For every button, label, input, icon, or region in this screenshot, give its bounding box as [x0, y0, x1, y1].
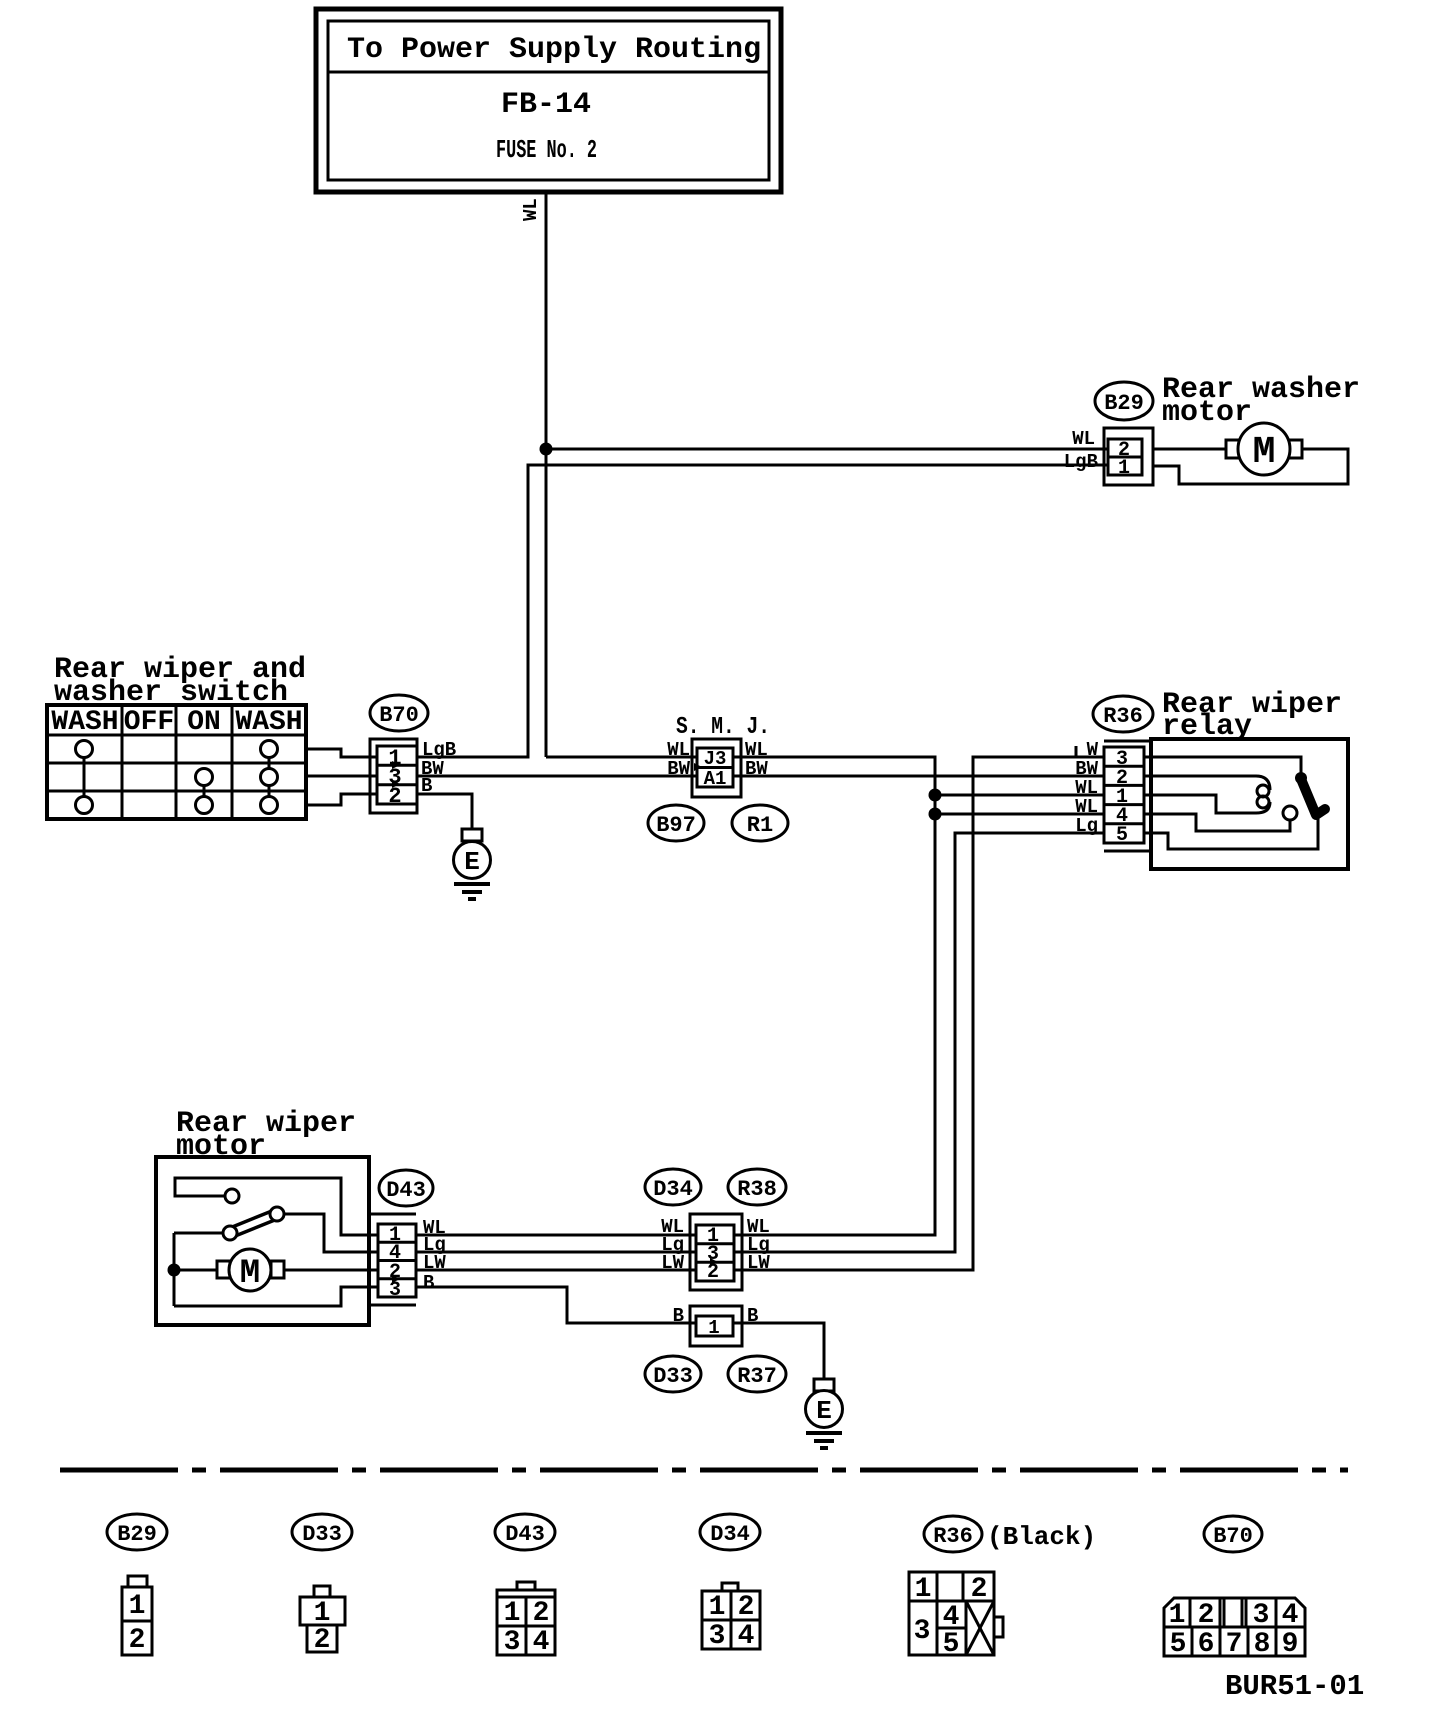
connector B29 shell: [1104, 428, 1153, 485]
svg-text:LW: LW: [423, 1252, 446, 1274]
svg-text:4: 4: [533, 1627, 550, 1658]
connector B70 bottom view oval: [1204, 1516, 1262, 1552]
svg-text:FB-14: FB-14: [501, 88, 591, 122]
svg-text:LW: LW: [747, 1252, 770, 1274]
svg-text:Lg: Lg: [1075, 815, 1098, 837]
connector D33 oval label: [645, 1356, 701, 1392]
svg-text:WL: WL: [520, 198, 542, 221]
wire switch row1 to B70 pin1: [306, 749, 380, 757]
svg-text:5: 5: [1170, 1629, 1187, 1660]
svg-text:2: 2: [314, 1625, 331, 1656]
rear wiper relay title: [1162, 688, 1342, 744]
svg-text:S. M. J.: S. M. J.: [676, 714, 770, 741]
svg-text:To Power Supply Routing: To Power Supply Routing: [347, 33, 761, 67]
motor internal wire park contact to pin1: [175, 1178, 416, 1235]
svg-text:3: 3: [1253, 1600, 1270, 1631]
rear wiper motor box: [156, 1157, 369, 1325]
connector B29 oval label: [1095, 382, 1153, 420]
svg-text:OFF: OFF: [124, 707, 174, 738]
connector R36 oval label: [1093, 696, 1153, 732]
svg-text:1: 1: [504, 1598, 521, 1629]
connector SMJ pins J3/A1: [694, 748, 733, 790]
svg-text:WL: WL: [1072, 428, 1095, 450]
svg-text:2: 2: [533, 1598, 550, 1629]
ground E (wiper motor): [806, 1379, 843, 1448]
svg-text:4: 4: [1282, 1600, 1299, 1631]
svg-text:2: 2: [1198, 1600, 1215, 1631]
relay coil: [1257, 785, 1269, 808]
svg-text:J3: J3: [704, 748, 727, 770]
wire WL branch to relay pin1: [935, 794, 1104, 797]
connector D33 pin 1: [696, 1316, 733, 1339]
svg-text:M: M: [1253, 431, 1276, 474]
svg-text:7: 7: [1226, 1629, 1243, 1660]
connector B29 bottom view oval: [107, 1514, 167, 1550]
connector B29 pins 2,1: [1108, 439, 1142, 480]
relay internal wire pin3 to switch arm: [1144, 757, 1301, 776]
svg-text:3: 3: [709, 1621, 726, 1652]
connector SMJ shell: [692, 739, 741, 797]
connector D43 bottom view oval: [495, 1514, 555, 1550]
svg-text:WASH: WASH: [51, 707, 118, 738]
svg-text:8: 8: [1254, 1629, 1271, 1660]
connector B70 pin block pins 1,3,2: [377, 746, 417, 809]
relay internal wire pin5 to arm: [1144, 818, 1318, 849]
connector B97 oval label: [648, 805, 704, 841]
wire WL to rear washer motor: [546, 448, 1138, 451]
wire switch row2 to B70 pin3: [306, 775, 380, 778]
svg-text:BW: BW: [667, 758, 690, 780]
connector D33 bottom view oval: [292, 1514, 352, 1550]
wire W from relay pin3 down to D34 pin2: [734, 757, 1104, 1270]
motor internal bottom wire to pin3: [174, 1287, 416, 1306]
svg-text:1: 1: [129, 1591, 146, 1622]
connector R38 oval label: [728, 1169, 786, 1205]
svg-text:3: 3: [914, 1616, 931, 1647]
junction node on WL wire: [540, 443, 553, 456]
svg-text:1: 1: [1118, 457, 1130, 480]
svg-text:1: 1: [708, 1317, 719, 1339]
connector D34 shell: [690, 1214, 742, 1290]
svg-text:B29: B29: [117, 1522, 157, 1547]
rear wiper relay box R36: [1151, 739, 1348, 869]
wire LgB from B70 pin1 to B29 pin1: [417, 465, 1138, 757]
svg-text:3: 3: [504, 1627, 521, 1658]
wire WL between D43 and D34: [416, 1234, 700, 1237]
rear wiper motor title: [176, 1107, 356, 1164]
rear wiper and washer switch title: [54, 653, 306, 710]
wire B29 pin1 loop to motor right side: [1153, 449, 1348, 484]
svg-text:D43: D43: [505, 1522, 545, 1547]
svg-text:B70: B70: [1213, 1524, 1253, 1549]
switch link col WASH right: [268, 749, 271, 805]
wire LW between D43 and D34: [416, 1269, 700, 1272]
relay internal wire pin4 to fixed contact: [1144, 814, 1290, 831]
relay shell lines: [1104, 741, 1151, 851]
svg-text:motor: motor: [1162, 396, 1252, 430]
connector B70 oval label: [370, 695, 428, 731]
svg-text:4: 4: [738, 1621, 755, 1652]
connector D43 pins 1,4,2,3: [378, 1224, 416, 1302]
svg-text:R36: R36: [1103, 704, 1143, 729]
svg-text:E: E: [464, 847, 480, 877]
svg-text:WASH: WASH: [235, 707, 302, 738]
svg-text:B: B: [421, 775, 432, 797]
svg-text:D34: D34: [653, 1177, 693, 1202]
svg-text:E: E: [816, 1396, 832, 1426]
switch link col1: [83, 749, 86, 805]
svg-text:6: 6: [1198, 1629, 1215, 1660]
svg-text:R1: R1: [747, 813, 773, 838]
svg-text:9: 9: [1282, 1629, 1299, 1660]
wire label W at relay pin3: [1076, 739, 1099, 761]
rear wiper and washer switch table: [47, 705, 306, 819]
ground E (switch): [454, 829, 491, 899]
svg-text:D34: D34: [710, 1522, 750, 1547]
separator dash-dot line: [60, 1468, 1348, 1473]
svg-text:BUR51-01: BUR51-01: [1225, 1670, 1364, 1703]
svg-text:B: B: [673, 1305, 684, 1327]
svg-text:2: 2: [971, 1574, 988, 1605]
connector D34 bottom view pins 1,2,3,4: [702, 1583, 760, 1652]
connector R36 bottom view pins 1,2,3,4,5: [909, 1572, 1003, 1660]
switch contact circles: [76, 741, 278, 814]
svg-text:5: 5: [1116, 824, 1128, 847]
svg-text:M: M: [240, 1255, 260, 1293]
wire Lg between D43 and D34: [416, 1251, 700, 1254]
connector R36 bottom view oval: [924, 1516, 982, 1552]
svg-text:B29: B29: [1104, 391, 1144, 416]
connector B70 bottom view pins 1-9: [1164, 1598, 1305, 1660]
connector B29 bottom view pins 1,2: [122, 1576, 152, 1656]
svg-text:ON: ON: [187, 707, 221, 738]
wire Lg from relay pin5 down to D34 pin3: [734, 833, 1104, 1252]
svg-text:D43: D43: [386, 1178, 426, 1203]
svg-text:B70: B70: [379, 703, 419, 728]
wire BW from B70 pin3 through SMJ to relay pin2: [417, 775, 1104, 778]
connector D34 bottom view oval: [700, 1514, 760, 1550]
svg-text:2: 2: [388, 784, 401, 809]
connector B70 shell: [370, 739, 417, 813]
svg-text:LgB: LgB: [1064, 451, 1098, 473]
wire WL vertical from fuse box: [545, 192, 548, 757]
rear washer motor title: [1162, 373, 1360, 430]
svg-text:FUSE No. 2: FUSE No. 2: [496, 135, 597, 165]
svg-text:(Black): (Black): [987, 1522, 1096, 1552]
svg-text:D33: D33: [653, 1364, 693, 1389]
wire B from D33/R37 to ground: [733, 1323, 824, 1379]
motor internal wire switch upper to pin4: [284, 1214, 416, 1252]
motor park switch lever: [223, 1189, 284, 1240]
svg-text:5: 5: [943, 1629, 960, 1660]
svg-text:R37: R37: [737, 1364, 777, 1389]
wire WL branch to relay pin4: [935, 813, 1104, 816]
wire switch row3 to B70 pin2: [306, 794, 380, 805]
connector D33 bottom view pins 1,2: [300, 1586, 345, 1656]
wire B from D43 pin3 to D33: [416, 1287, 700, 1323]
connector R37 oval label: [728, 1356, 786, 1392]
svg-text:3: 3: [389, 1279, 401, 1302]
connector R1 oval label: [732, 805, 788, 841]
connector D43 bottom view pins 1,2,3,4: [497, 1582, 555, 1658]
wire B29 pin2 to motor: [1153, 448, 1228, 451]
connector D33 shell: [690, 1306, 742, 1346]
svg-text:2: 2: [129, 1625, 146, 1656]
motor internal wire switch lower to left rail: [174, 1232, 223, 1235]
motor wire to M2: [174, 1269, 230, 1272]
svg-text:B: B: [747, 1305, 758, 1327]
svg-text:D33: D33: [302, 1522, 342, 1547]
svg-text:A1: A1: [704, 768, 727, 790]
svg-text:1: 1: [1169, 1600, 1186, 1631]
switch link col ON: [203, 777, 206, 805]
svg-text:B: B: [423, 1272, 434, 1294]
wire B from B70 pin2 to ground: [417, 794, 472, 829]
svg-text:LW: LW: [661, 1252, 684, 1274]
connector D34 pins 1,3,2: [696, 1225, 734, 1284]
relay internal wire pin2 to coil: [1144, 776, 1270, 790]
svg-text:1: 1: [915, 1574, 932, 1605]
svg-text:2: 2: [738, 1592, 755, 1623]
motor internal left rail: [173, 1233, 176, 1306]
svg-text:1: 1: [709, 1592, 726, 1623]
relay pin block pins 3,2,1,4,5: [1104, 747, 1144, 847]
svg-text:R36: R36: [933, 1524, 973, 1549]
relay internal wire pin1 to coil: [1144, 795, 1270, 813]
connector D43 oval label: [379, 1170, 433, 1206]
relay switch arm (moving contact): [1301, 779, 1325, 815]
svg-text:BW: BW: [745, 758, 768, 780]
motor M2 to pin2: [280, 1269, 416, 1272]
power supply box FB-14: [316, 9, 781, 192]
rear wiper motor M2: [217, 1249, 284, 1293]
connector D43 shell lines: [369, 1214, 416, 1305]
junction node left rail / motor: [168, 1264, 181, 1277]
relay fixed contact: [1283, 806, 1297, 820]
rear washer motor M1: [1226, 423, 1302, 475]
svg-text:R38: R38: [737, 1177, 777, 1202]
connector D34 oval label: [645, 1169, 701, 1205]
wire WL horizontal to relay branch vertical: [546, 757, 935, 1235]
junction node WL/relay pin1: [929, 789, 942, 802]
junction node WL/relay pin4: [929, 808, 942, 821]
svg-text:B97: B97: [656, 813, 696, 838]
